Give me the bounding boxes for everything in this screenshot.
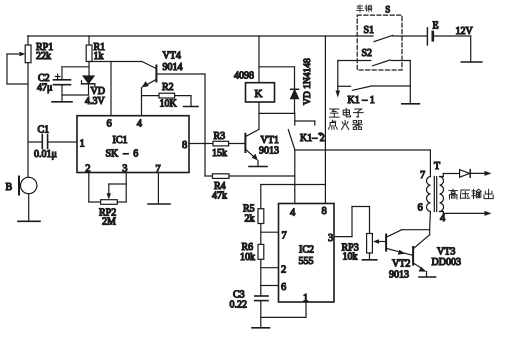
transistor VT4 [142, 62, 206, 116]
svg-text:4098: 4098 [234, 71, 254, 82]
wire +12V switched net (horizontal) [295, 149, 431, 151]
relay contact K1-1 [338, 86, 411, 90]
svg-text:8: 8 [182, 140, 187, 151]
svg-text:555: 555 [299, 256, 314, 267]
svg-text:IC1: IC1 [113, 135, 128, 146]
wire supply to transformer pin 7 [429, 150, 431, 177]
svg-text:1: 1 [80, 139, 85, 150]
svg-text:10K: 10K [160, 99, 178, 110]
svg-text:6: 6 [107, 119, 112, 130]
transistor VT3 [413, 235, 430, 277]
svg-text:R2: R2 [162, 82, 174, 93]
potentiometer RP2 [101, 200, 127, 205]
car lock S dashed box [357, 15, 402, 70]
svg-text:2: 2 [281, 265, 286, 276]
wire IC2 pin 6 [261, 285, 279, 287]
capacitor C2 [54, 67, 71, 102]
ground C3 [252, 327, 270, 329]
wire RP1 wiper loop [7, 54, 28, 84]
svg-text:9013: 9013 [259, 146, 279, 157]
svg-text:S: S [385, 5, 390, 15]
svg-text:15k: 15k [212, 148, 227, 159]
svg-text:T: T [434, 161, 440, 172]
potentiometer RP3 [367, 234, 373, 260]
transistor VT1 [245, 113, 259, 166]
svg-text:10k: 10k [240, 252, 255, 263]
svg-text:E: E [433, 21, 439, 32]
svg-text:9013: 9013 [389, 270, 409, 281]
RP3 wiper arrow [373, 239, 386, 243]
wire IC2 pin 1 to ground [261, 302, 306, 317]
svg-text:9014: 9014 [163, 62, 183, 73]
svg-text:VT4: VT4 [163, 51, 181, 62]
svg-text:VD 1N4148: VD 1N4148 [303, 58, 313, 105]
svg-text:C1: C1 [38, 125, 50, 136]
svg-text:47μ: 47μ [37, 83, 52, 94]
svg-text:K1 – 1: K1 – 1 [348, 95, 375, 106]
svg-text:7: 7 [282, 231, 287, 242]
diode VD 1N4148 [259, 67, 299, 114]
svg-text:8: 8 [322, 206, 327, 217]
svg-text:0.01μ: 0.01μ [34, 149, 57, 160]
resistor R3 [189, 141, 245, 146]
IC op-amp U IC1 [77, 116, 189, 173]
microphone B [19, 177, 37, 195]
wire R1 junction to C2 [62, 66, 89, 68]
switch S1 [374, 35, 427, 41]
svg-text:K: K [255, 88, 263, 100]
svg-text:4: 4 [290, 208, 296, 219]
svg-text:3: 3 [328, 233, 333, 244]
wire VT4 base to R4 [205, 74, 213, 176]
wire mic to ground [28, 194, 30, 221]
wire IC1 pin 2 [89, 173, 101, 203]
zener diode VD 4.3V [82, 76, 95, 95]
ground mic [18, 220, 40, 222]
label to electronic (drawn glyphs) [330, 108, 364, 117]
ground R2 [184, 106, 199, 108]
IC timer IC2 555 [279, 204, 335, 303]
capacitor C1 [28, 135, 77, 149]
transformer T core [434, 177, 436, 212]
svg-text:4: 4 [440, 213, 446, 224]
wire K bottom to K1-2 [259, 112, 295, 114]
ground IC1 pin 7 [148, 203, 170, 205]
label igniter (drawn glyphs) [329, 120, 363, 129]
svg-text:VT3: VT3 [437, 247, 455, 258]
wire IC2 pin 7 [261, 231, 279, 233]
svg-text:SK – 6: SK – 6 [106, 149, 139, 160]
label car lock S (drawn glyphs) [356, 5, 390, 15]
svg-text:1k: 1k [94, 51, 104, 62]
wire IC1 pin 3 [125, 173, 127, 203]
svg-text:6: 6 [281, 282, 286, 293]
wire top supply rail [28, 35, 374, 37]
label C2 polarity + [55, 74, 60, 79]
svg-text:VT1: VT1 [261, 135, 279, 146]
wire to IC1 pin 6 [110, 62, 112, 116]
wire supply drop to pin 8 [324, 36, 326, 204]
transformer T primary winding [426, 177, 430, 235]
wire secondary top output [440, 174, 460, 177]
ground RP3 [363, 259, 377, 261]
svg-text:R3: R3 [214, 131, 226, 142]
svg-text:2: 2 [85, 163, 90, 174]
ground igniter return [402, 103, 420, 105]
RP1 wiper arrow [7, 52, 25, 56]
wire K1-2 to IC2 pin 4 [294, 150, 296, 204]
wire C2/VD common [62, 94, 89, 96]
resistor R2 [142, 93, 192, 106]
svg-text:2k: 2k [245, 214, 255, 225]
svg-text:7: 7 [420, 170, 425, 181]
wire R1 junction to VT4 collector [89, 61, 142, 63]
svg-text:4.3V: 4.3V [85, 96, 106, 107]
wire IC2 pin 3 bridge [334, 207, 370, 237]
svg-text:10k: 10k [343, 252, 358, 263]
resistor R4 [213, 174, 295, 179]
relay contact K1-2 [288, 113, 315, 149]
transistor VT2 [386, 230, 430, 256]
wire to electronic igniter arrow [336, 61, 341, 98]
capacitor C3 [255, 296, 268, 328]
switch S2 [338, 60, 411, 66]
wire S2/K1-1 right to ground [409, 61, 411, 104]
svg-text:VT2: VT2 [392, 259, 410, 270]
diode output [460, 170, 471, 178]
wire IC1 pin 7 [157, 173, 159, 204]
ground C2 [52, 101, 72, 103]
wire secondary bottom output arrow [440, 211, 492, 216]
svg-text:22k: 22k [36, 51, 51, 62]
relay coil K [246, 36, 275, 113]
svg-text:6: 6 [418, 203, 423, 214]
svg-text:S2: S2 [362, 48, 373, 59]
wire R5 top to pin 8 vertical [261, 184, 326, 186]
resistor R6 [258, 244, 264, 295]
svg-text:B: B [6, 182, 13, 193]
RP2 wiper arrow [107, 184, 127, 200]
svg-text:S1: S1 [364, 25, 375, 36]
battery E [427, 28, 470, 45]
ground VT3 emitter [419, 276, 436, 278]
svg-text:0.22: 0.22 [230, 300, 248, 311]
svg-text:IC2: IC2 [299, 245, 314, 256]
ground battery [461, 61, 482, 63]
ink dot [318, 132, 323, 135]
resistor R1 [86, 36, 92, 76]
wire IC2 pin 2 [261, 267, 279, 269]
svg-text:4: 4 [137, 119, 143, 130]
ground VT1 emitter [249, 166, 267, 168]
svg-text:47k: 47k [212, 191, 227, 202]
resistor R5 [258, 185, 264, 245]
svg-text:2M: 2M [102, 217, 116, 228]
wire battery to ground [470, 36, 472, 62]
svg-text:DD003: DD003 [432, 257, 461, 268]
label high voltage output (drawn glyphs) [449, 189, 493, 199]
wire output arrow top [470, 171, 491, 176]
transformer T secondary winding [440, 177, 444, 212]
svg-text:12V: 12V [456, 26, 474, 37]
potentiometer RP1 [25, 36, 31, 178]
